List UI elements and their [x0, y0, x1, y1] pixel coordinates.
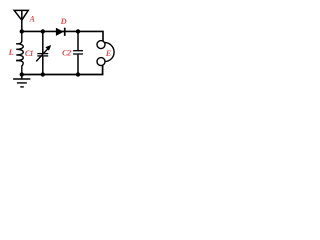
svg-text:C1: C1	[25, 49, 34, 58]
svg-text:D: D	[60, 17, 67, 26]
svg-text:L: L	[8, 48, 14, 57]
svg-text:E: E	[105, 49, 112, 58]
svg-text:A: A	[29, 15, 36, 24]
svg-text:C2: C2	[62, 49, 71, 58]
